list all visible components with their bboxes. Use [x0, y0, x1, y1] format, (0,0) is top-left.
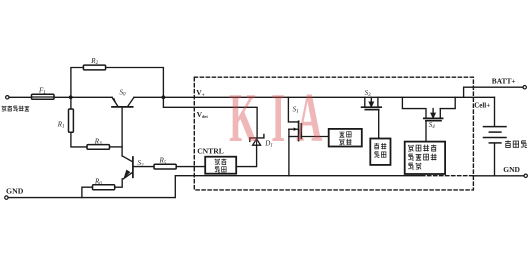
wire: through fuse F1 [32, 96, 55, 98]
diode D1 cathode bar with zener wings [250, 134, 264, 141]
wire: Vdet tap line [163, 97, 257, 137]
wire: GND rail left [8, 176, 175, 198]
transistor S0 emitter arrow [113, 98, 118, 106]
wire: R3 to S0 base node [110, 146, 123, 148]
wire: S4 source back to V+ line [440, 97, 455, 108]
transistor S0 base bar [112, 106, 133, 108]
transistor S2 collector [122, 156, 132, 162]
MOSFET S1 body arrow [294, 128, 298, 131]
MOSFET S3 gate bar [365, 109, 378, 111]
MOSFET S4 gate bar [426, 120, 441, 122]
fuse F1 body [32, 94, 55, 99]
wire: S3 gate to current detect block [378, 110, 380, 139]
wire: S1 source to ground rail [288, 129, 290, 176]
block U1 charge control (CNTRL) [205, 157, 236, 174]
MOSFET S4 drop from V+ line [402, 97, 424, 108]
svg-text:GND: GND [6, 186, 24, 195]
wire: node A down to R1 [70, 97, 72, 109]
protection module dashed boundary [194, 77, 473, 190]
battery B1 bottom lead [494, 144, 496, 176]
battery B1 plate long 2 [484, 137, 507, 139]
transistor S0 collector [128, 97, 134, 106]
wire: BATT+ branch riser [464, 87, 523, 97]
wire: S4 gate to protection block [425, 121, 427, 142]
resistor R1 body [69, 109, 74, 132]
text in current detect block [374, 143, 386, 157]
wire: R2 to node B [106, 68, 164, 98]
terminal: charger input [6, 96, 9, 99]
MOSFET S3 right channel stub [377, 97, 379, 106]
wire: ground rail dashed section [422, 175, 474, 177]
block U2 safety shunt [329, 129, 362, 147]
MOSFET S3 body arrow [369, 97, 373, 106]
transistor S2 emitter arrow [124, 170, 131, 179]
battery B1 top lead [494, 97, 496, 126]
transistor S2 base lead [134, 166, 154, 168]
block U3 current detect [370, 139, 390, 165]
wire: fuse to node A [54, 96, 112, 98]
resistor R6 body [93, 185, 115, 190]
resistor R2 body [83, 65, 105, 70]
wire: ground rail to GND terminal [473, 175, 524, 177]
resistor R3 body [87, 145, 110, 150]
watermark KIA [229, 79, 322, 157]
terminal: GND left [5, 196, 8, 199]
wire: input to fuse F1 [9, 96, 31, 98]
label: charger input (Chinese) [2, 106, 30, 112]
MOSFET S4 right channel stub [439, 109, 441, 118]
wire: node A up to R2 loop [71, 68, 84, 98]
transistor S0 emitter [112, 97, 118, 106]
wire: main V+ line to battery branch [134, 96, 495, 98]
node B junction dot [162, 95, 166, 99]
transistor S2 base bar [132, 157, 134, 177]
label: lithium battery (Chinese) [505, 140, 527, 147]
svg-text:I: I [271, 79, 285, 157]
resistor R5 body [154, 164, 176, 169]
svg-text:Cell+: Cell+ [474, 102, 490, 110]
svg-text:GND: GND [503, 165, 520, 174]
MOSFET S1 channel bar [298, 121, 300, 140]
MOSFET S3 left channel stub [364, 97, 366, 106]
MOSFET S1 gate bar [300, 124, 302, 138]
text in CNTRL block: charge control [215, 159, 227, 173]
svg-text:K: K [229, 79, 257, 157]
block U4 low-voltage and short protection [405, 142, 445, 174]
wire: R6 to GND rail [82, 187, 93, 197]
wire: CNTRL output to D1 anode [236, 145, 256, 166]
battery B1 plate long 1 [484, 126, 507, 128]
diode D1 (zener) triangle [253, 139, 261, 145]
wire: R5 to CNTRL block [176, 166, 205, 168]
MOSFET S1 drain lead from V+ line [288, 97, 298, 122]
text in safety shunt block [339, 132, 351, 145]
MOSFET S4 channel bar [424, 117, 443, 119]
terminal: GND right [524, 174, 527, 177]
wire: R1 to R3 [71, 132, 87, 147]
battery B1 plate short 2 [489, 142, 501, 144]
battery B1 plate short 1 [489, 131, 501, 133]
terminal: BATT+ [523, 86, 526, 89]
MOSFET S1 source lead [289, 136, 298, 138]
transistor S2 emitter [123, 173, 132, 179]
MOSFET S3 channel bar [362, 106, 382, 108]
text in protection block: phone low-voltage and short protection [408, 145, 437, 170]
MOSFET S4 left channel stub [425, 109, 427, 118]
svg-text:CNTRL: CNTRL [197, 146, 224, 155]
svg-text:A: A [296, 79, 322, 157]
MOSFET S1 body lead [289, 128, 298, 130]
wire: ground rail inside module [175, 175, 420, 177]
wire: S0 base lead down [121, 108, 123, 156]
wire: S1 gate to safety shunt block [301, 136, 328, 138]
wire: S2 emitter down to R6 [115, 179, 123, 187]
MOSFET S4 body arrow [431, 109, 435, 118]
svg-text:BATT+: BATT+ [492, 76, 516, 85]
node A junction dot [69, 95, 73, 99]
